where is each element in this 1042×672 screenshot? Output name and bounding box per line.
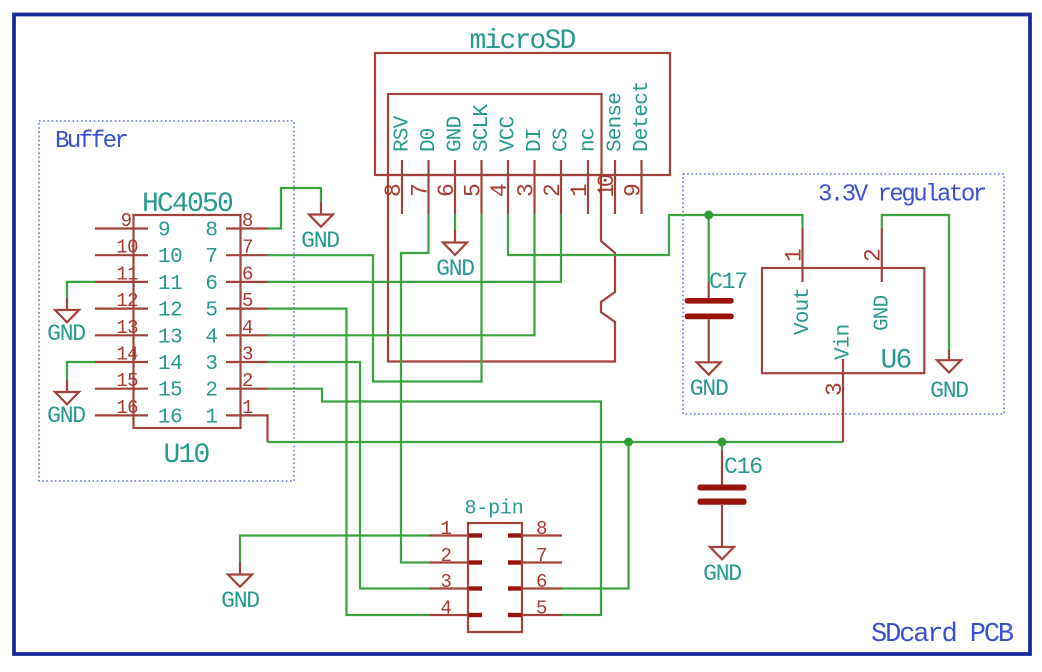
U10 pin 4 line <box>226 334 268 336</box>
svg-text:GND: GND <box>436 256 474 282</box>
microSD card-detect switch outline <box>388 175 615 362</box>
stub 3 <box>469 586 482 590</box>
svg-text:8: 8 <box>536 518 547 540</box>
U10 pin 10 line <box>95 254 148 256</box>
svg-text:10: 10 <box>116 237 138 259</box>
J2 pin 4 line <box>429 614 468 616</box>
Buffer section dashed box <box>39 121 294 481</box>
svg-text:9: 9 <box>621 183 647 197</box>
svg-text:16: 16 <box>116 397 138 419</box>
svg-text:12: 12 <box>116 290 138 312</box>
ground left A <box>47 298 85 347</box>
wire U6 pin2 to ground <box>882 215 949 350</box>
ground C17 <box>690 362 728 402</box>
U10 pin 1 elbow line <box>226 415 268 442</box>
pin 4 VCC line <box>507 160 509 214</box>
svg-text:SDcard PCB: SDcard PCB <box>871 620 1014 650</box>
svg-text:8: 8 <box>205 220 217 243</box>
svg-text:1: 1 <box>242 397 253 419</box>
stub 8 <box>508 533 521 537</box>
svg-text:15: 15 <box>158 380 182 403</box>
svg-text:2: 2 <box>205 380 217 403</box>
pin 10 Sense line <box>614 160 616 214</box>
wire U10 pin4 to DI <box>268 214 535 335</box>
wire U10 pin3 to 8pin pin3 <box>268 362 430 589</box>
buffer U10 body <box>134 215 241 428</box>
svg-text:3: 3 <box>242 344 253 366</box>
svg-text:4: 4 <box>487 183 513 197</box>
U10 pin 12 line <box>95 308 148 310</box>
svg-text:Buffer: Buffer <box>55 128 128 155</box>
svg-text:4: 4 <box>242 317 253 339</box>
svg-text:2: 2 <box>242 370 253 392</box>
regulator U6 body <box>762 268 924 373</box>
svg-text:9: 9 <box>121 210 132 232</box>
connector J1 microSD outer body <box>375 53 670 175</box>
U10 pin 9 line <box>95 227 148 229</box>
svg-text:2: 2 <box>861 248 887 262</box>
svg-text:4: 4 <box>441 598 452 620</box>
U10 inner pin numbers left <box>158 220 182 430</box>
wire junction to C17 <box>708 215 710 282</box>
svg-text:10: 10 <box>158 246 182 269</box>
svg-text:GND: GND <box>221 588 259 614</box>
svg-text:5: 5 <box>536 598 547 620</box>
svg-text:microSD: microSD <box>469 26 575 57</box>
pin 2 CS line <box>560 160 562 214</box>
stub 1 <box>469 533 482 537</box>
svg-text:GND: GND <box>930 378 968 404</box>
svg-text:3: 3 <box>441 571 452 593</box>
svg-text:3: 3 <box>514 183 540 197</box>
svg-text:Vout: Vout <box>792 288 815 335</box>
stub 4 <box>469 613 482 617</box>
svg-text:7: 7 <box>242 237 253 259</box>
U6 pin 3 line <box>842 359 844 442</box>
svg-text:5: 5 <box>242 290 253 312</box>
pin 3 DI line <box>533 160 535 214</box>
wire 8pin pin6 to bus <box>562 442 629 589</box>
wire U10 pin2 to 8pin pin5 <box>268 389 602 615</box>
capacitor C17 <box>685 269 747 362</box>
U10 inner pin numbers right <box>205 220 217 430</box>
svg-text:C16: C16 <box>724 454 762 480</box>
connector J1 microSD inner body <box>388 94 602 175</box>
U10 pin 7 line <box>226 254 268 256</box>
U6 pin 1 line <box>801 228 803 282</box>
junction bus to C16 <box>718 438 727 447</box>
svg-text:GND: GND <box>445 116 468 152</box>
svg-text:6: 6 <box>536 571 547 593</box>
U10 pin 16 line <box>95 414 148 416</box>
wire U10 pin 14 to ground <box>67 362 95 380</box>
svg-text:3: 3 <box>822 382 848 396</box>
pin 5 SCLK line <box>480 160 482 214</box>
svg-text:8: 8 <box>381 183 407 197</box>
pin 6 GND line <box>454 160 456 214</box>
svg-text:9: 9 <box>158 220 170 243</box>
U10 pin 6 line <box>226 281 268 283</box>
junction VCC node <box>704 211 713 220</box>
wire D0 to 8pin pin2 <box>401 214 429 563</box>
svg-text:Sense: Sense <box>605 93 628 152</box>
J2 pin 1 line <box>429 534 468 536</box>
svg-text:RSV: RSV <box>392 115 415 152</box>
J2 pin 3 line <box>429 587 468 589</box>
svg-text:14: 14 <box>158 353 182 376</box>
svg-text:HC4050: HC4050 <box>142 189 233 220</box>
wire U10 pin 8 to ground <box>268 188 322 229</box>
svg-text:7: 7 <box>536 545 547 567</box>
wire U10 pin 11 to ground <box>67 282 95 298</box>
ground C16 <box>703 547 741 587</box>
wire U10 pin1 bus to Vin <box>268 441 844 443</box>
svg-text:6: 6 <box>434 183 460 197</box>
svg-text:11: 11 <box>158 273 182 296</box>
U10 pin 3 line <box>226 361 268 363</box>
U10 pin 8 line <box>226 227 268 229</box>
svg-text:GND: GND <box>703 561 741 587</box>
J2 pin 7 line <box>522 561 562 563</box>
U10 pin 5 line <box>226 308 268 310</box>
svg-text:13: 13 <box>158 326 182 349</box>
wire U10 pin5 to 8pin pin4 <box>268 309 430 615</box>
svg-text:GND: GND <box>301 228 339 254</box>
stub 6 <box>508 586 521 590</box>
svg-text:3: 3 <box>205 353 217 376</box>
stub 5 <box>508 613 521 617</box>
svg-text:1: 1 <box>782 248 808 262</box>
svg-text:6: 6 <box>242 263 253 285</box>
svg-text:U6: U6 <box>880 346 910 377</box>
J2 pin 6 line <box>522 587 562 589</box>
pin 7 D0 line <box>427 160 429 214</box>
svg-text:VCC: VCC <box>498 116 521 152</box>
svg-text:1: 1 <box>567 183 593 197</box>
ground U6 right <box>930 350 968 404</box>
stub 2 <box>469 560 482 564</box>
svg-text:2: 2 <box>540 183 566 197</box>
svg-text:GND: GND <box>47 403 85 429</box>
svg-text:Vin: Vin <box>833 325 856 360</box>
svg-text:8: 8 <box>242 210 253 232</box>
svg-text:SCLK: SCLK <box>471 104 494 152</box>
wire microSD GND pin <box>454 214 456 230</box>
svg-text:10: 10 <box>594 174 620 197</box>
U6 pin 2 line <box>881 228 883 282</box>
3.3V regulator section dashed box <box>683 174 1004 414</box>
stub 7 <box>508 560 521 564</box>
svg-text:DI: DI <box>524 128 547 152</box>
U10 pin 13 line <box>95 334 148 336</box>
ground bottom <box>221 562 259 614</box>
wire VCC to regulator <box>508 214 803 255</box>
capacitor C16 <box>698 442 763 547</box>
J2 pin 5 line <box>522 614 562 616</box>
U10 pin 11 line <box>95 281 148 283</box>
svg-text:Detect: Detect <box>631 81 654 152</box>
svg-text:CS: CS <box>551 128 574 152</box>
U10 pin 14 line <box>95 361 148 363</box>
J2 pin stubs right <box>508 533 521 617</box>
svg-text:16: 16 <box>158 406 182 429</box>
wire 8pin pin1 to ground <box>240 536 429 563</box>
svg-text:1: 1 <box>441 518 452 540</box>
svg-text:3.3V regulator: 3.3V regulator <box>818 182 986 209</box>
J2 pin 2 line <box>429 561 468 563</box>
svg-text:D0: D0 <box>418 128 441 152</box>
svg-text:C17: C17 <box>709 269 747 295</box>
svg-text:GND: GND <box>47 321 85 347</box>
wire U10 pin7 to SCLK <box>268 214 482 382</box>
J2 pin numbers right <box>536 518 547 620</box>
U10 pin 15 line <box>95 388 148 390</box>
U10 pin 2 line <box>226 388 268 390</box>
svg-text:14: 14 <box>116 344 138 366</box>
svg-text:GND: GND <box>871 295 894 331</box>
junction bus to 8pin pin6 <box>624 438 633 447</box>
svg-text:1: 1 <box>205 406 217 429</box>
ground U10 pin8 <box>301 202 339 254</box>
U10 outer pin numbers left <box>116 210 138 419</box>
U10 outer pin numbers right <box>242 210 253 419</box>
pin 8 RSV line <box>401 160 403 214</box>
wire U10 pin6 to CS <box>268 214 562 282</box>
svg-text:4: 4 <box>205 326 217 349</box>
svg-text:6: 6 <box>205 273 217 296</box>
pin 1 nc line <box>587 160 589 214</box>
J2 pin 8 line <box>522 534 562 536</box>
svg-text:GND: GND <box>690 376 728 402</box>
svg-text:nc: nc <box>578 128 601 152</box>
svg-text:7: 7 <box>408 183 434 197</box>
ground microSD <box>436 230 474 282</box>
J2 pin stubs left <box>469 533 482 617</box>
pin 9 Detect line <box>640 160 642 214</box>
svg-text:2: 2 <box>441 545 452 567</box>
svg-text:5: 5 <box>461 183 487 197</box>
svg-text:13: 13 <box>116 317 138 339</box>
svg-text:11: 11 <box>116 263 138 285</box>
J2 pin numbers left <box>441 518 452 620</box>
svg-text:7: 7 <box>205 246 217 269</box>
svg-text:15: 15 <box>116 370 138 392</box>
connector J2 8-pin body <box>468 523 522 632</box>
svg-text:12: 12 <box>158 300 182 323</box>
ground left B <box>47 380 85 429</box>
svg-text:8-pin: 8-pin <box>464 498 523 521</box>
svg-text:5: 5 <box>205 300 217 323</box>
svg-text:U10: U10 <box>163 440 209 471</box>
